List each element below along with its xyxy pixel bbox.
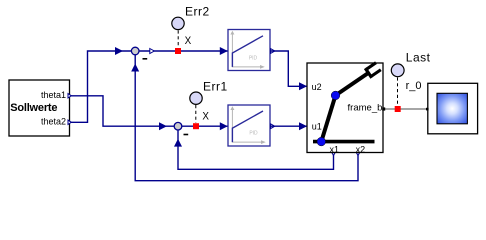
arrowhead into feedback1 <box>159 122 167 130</box>
output connector theta2 <box>68 120 71 124</box>
wire PID1 to u2 <box>271 51 307 86</box>
block Sollwerte <box>9 80 70 136</box>
wire frame_b to visualizer <box>383 108 427 110</box>
block doublePendulum <box>307 63 383 154</box>
feedback wire x2 to feedback2 (outer loop) <box>135 55 358 181</box>
svg-text:Sollwerte: Sollwerte <box>10 102 57 114</box>
svg-text:PID: PID <box>249 131 258 137</box>
svg-text:X: X <box>185 35 192 47</box>
dashed tap Err1 <box>195 105 197 123</box>
minus sign of feedback2 <box>143 58 148 60</box>
svg-text:theta2: theta2 <box>41 116 66 126</box>
block PID2 (lower controller) <box>228 105 270 146</box>
arrowhead up into feedback2 <box>131 64 139 72</box>
wire feedback2 to PID1 <box>139 50 228 52</box>
joint 1 <box>317 137 326 146</box>
svg-text:u1: u1 <box>312 122 322 132</box>
svg-text:x1: x1 <box>329 144 339 154</box>
pendulum link 2 <box>336 73 370 96</box>
input connector u1 <box>300 123 307 129</box>
minus sign of feedback1 <box>184 134 189 136</box>
arrowhead into feedback2 <box>115 47 123 55</box>
svg-text:Last: Last <box>406 51 431 65</box>
svg-text:x2: x2 <box>356 144 366 154</box>
wire theta1 to feedback1 junction <box>71 96 175 126</box>
feedback wire x1 to feedback1 (inner loop) <box>178 130 334 170</box>
svg-text:u2: u2 <box>312 82 322 92</box>
sum junction feedback1 (lower) <box>174 122 182 130</box>
output connector x1 <box>332 153 335 156</box>
output connector theta1 <box>68 94 71 98</box>
input connector u2 <box>300 83 307 89</box>
block visualizer <box>428 83 478 134</box>
pendulum base bar <box>313 140 375 144</box>
output connector PID1 <box>271 49 275 54</box>
dashed tap Last <box>397 77 399 105</box>
svg-text:Err2: Err2 <box>185 4 210 18</box>
wire PID2 to u1 <box>271 125 307 127</box>
joint 2 <box>331 91 340 100</box>
svg-text:theta1: theta1 <box>41 90 66 100</box>
sensor Err2 <box>172 17 184 29</box>
svg-text:X: X <box>202 110 209 122</box>
block PID1 (upper controller) <box>228 30 270 71</box>
arrowhead into PID1 <box>220 47 228 55</box>
arrowhead into u2 <box>299 82 307 90</box>
svg-text:PID: PID <box>249 56 258 62</box>
pendulum link 1 <box>321 95 335 141</box>
sensor Err1 <box>190 92 202 104</box>
node r_0 tap (red square) <box>395 106 401 112</box>
end fork <box>364 61 382 78</box>
sum junction feedback2 (upper) <box>131 47 139 55</box>
connector frame_b stub <box>382 107 385 110</box>
sensor Last <box>391 64 404 77</box>
output connector x2 <box>356 153 359 156</box>
svg-text:frame_b: frame_b <box>348 103 383 114</box>
arrowhead into u1 <box>299 122 307 130</box>
node Err1 tap (red square) <box>193 123 199 129</box>
svg-text:r_0: r_0 <box>406 80 422 92</box>
node Err2 tap (red square) <box>175 48 181 54</box>
wire theta2 to feedback2 junction <box>71 51 132 122</box>
input connector of visualizer <box>426 108 429 111</box>
wire feedback1 to PID2 <box>182 125 228 127</box>
arrowhead into PID2 <box>220 122 228 130</box>
svg-text:Err1: Err1 <box>203 80 228 94</box>
dashed tap Err2 <box>177 30 179 47</box>
flow arrowhead (open) on upper wire <box>150 49 155 54</box>
arrowhead up into feedback1 <box>174 139 182 147</box>
output connector PID2 <box>271 124 275 129</box>
